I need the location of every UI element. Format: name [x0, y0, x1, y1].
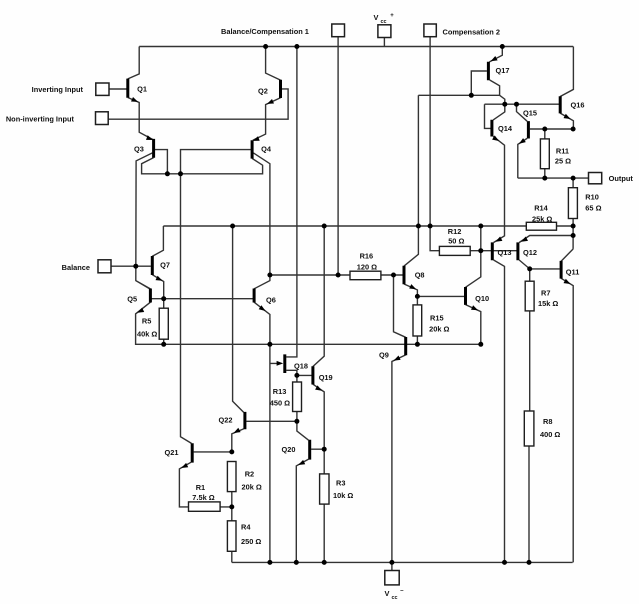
svg-text:Q15: Q15: [523, 109, 537, 118]
svg-text:25 Ω: 25 Ω: [555, 156, 571, 165]
svg-text:Q12: Q12: [523, 248, 537, 257]
svg-text:Q14: Q14: [498, 124, 513, 133]
svg-text:V: V: [385, 589, 390, 598]
svg-text:Q11: Q11: [566, 268, 580, 277]
svg-text:Q5: Q5: [127, 295, 137, 304]
svg-text:+: +: [390, 13, 394, 19]
svg-text:R16: R16: [360, 251, 374, 260]
svg-text:−: −: [400, 589, 404, 595]
svg-text:V: V: [374, 13, 379, 22]
svg-text:Non-inverting Input: Non-inverting Input: [6, 115, 75, 124]
svg-text:65 Ω: 65 Ω: [585, 204, 601, 213]
svg-text:cc: cc: [381, 19, 387, 25]
svg-text:50 Ω: 50 Ω: [448, 236, 464, 245]
svg-text:15k Ω: 15k Ω: [538, 299, 558, 308]
svg-text:Q3: Q3: [134, 145, 144, 154]
svg-text:Q9: Q9: [379, 351, 389, 360]
svg-text:Inverting Input: Inverting Input: [32, 85, 84, 94]
svg-text:25k Ω: 25k Ω: [532, 214, 552, 223]
svg-text:Q19: Q19: [319, 373, 333, 382]
svg-text:7.5k Ω: 7.5k Ω: [192, 493, 214, 502]
svg-text:Q2: Q2: [258, 87, 268, 96]
svg-text:10k Ω: 10k Ω: [333, 491, 353, 500]
svg-text:Q17: Q17: [496, 66, 510, 75]
svg-text:Compensation 2: Compensation 2: [443, 28, 501, 37]
svg-text:Q13: Q13: [498, 248, 512, 257]
svg-text:Q8: Q8: [415, 271, 425, 280]
svg-text:R1: R1: [196, 483, 205, 492]
svg-text:20k Ω: 20k Ω: [242, 483, 262, 492]
svg-text:Q16: Q16: [571, 101, 585, 110]
svg-text:400 Ω: 400 Ω: [540, 430, 560, 439]
svg-text:Q4: Q4: [261, 145, 272, 154]
svg-text:R13: R13: [273, 387, 287, 396]
svg-text:450 Ω: 450 Ω: [270, 399, 290, 408]
svg-text:cc: cc: [392, 595, 398, 601]
svg-text:20k Ω: 20k Ω: [429, 325, 449, 334]
svg-text:R7: R7: [541, 289, 550, 298]
svg-text:Q22: Q22: [219, 416, 233, 425]
svg-text:40k Ω: 40k Ω: [137, 329, 157, 338]
svg-text:250 Ω: 250 Ω: [241, 537, 261, 546]
svg-text:Output: Output: [609, 174, 634, 183]
svg-text:R5: R5: [142, 316, 151, 325]
svg-text:R8: R8: [543, 417, 552, 426]
svg-text:R3: R3: [336, 479, 345, 488]
svg-text:R12: R12: [448, 227, 462, 236]
svg-text:Q20: Q20: [282, 445, 296, 454]
svg-text:R15: R15: [430, 313, 444, 322]
svg-text:R11: R11: [556, 147, 569, 156]
svg-text:Q1: Q1: [137, 84, 147, 93]
svg-text:R4: R4: [241, 523, 251, 532]
svg-text:R14: R14: [534, 204, 548, 213]
svg-text:R10: R10: [585, 192, 599, 201]
svg-text:120 Ω: 120 Ω: [357, 263, 377, 272]
svg-text:R2: R2: [245, 470, 254, 479]
svg-text:Q10: Q10: [475, 294, 489, 303]
svg-text:Q7: Q7: [160, 261, 170, 270]
svg-text:Q6: Q6: [266, 296, 276, 305]
svg-text:Q21: Q21: [165, 448, 179, 457]
svg-text:Balance/Compensation 1: Balance/Compensation 1: [221, 27, 309, 36]
svg-text:Q18: Q18: [294, 361, 308, 370]
svg-text:Balance: Balance: [62, 263, 90, 272]
